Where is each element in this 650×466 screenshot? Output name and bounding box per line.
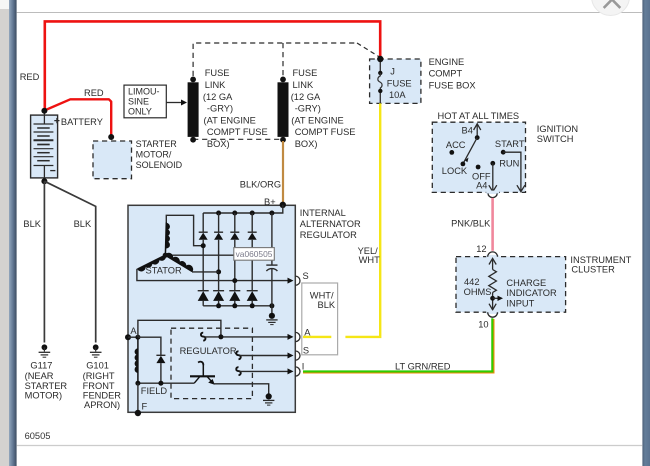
fuse link 2 (12 GA-GRY) bbox=[278, 77, 289, 143]
svg-text:G101: G101 bbox=[86, 361, 109, 371]
field winding bbox=[137, 337, 139, 383]
starter motor solenoid box bbox=[93, 141, 132, 179]
label YEL/WHT bbox=[358, 246, 380, 265]
svg-text:442: 442 bbox=[464, 277, 480, 287]
wire YEL fuse J down to alternator A terminal bbox=[345, 103, 380, 337]
svg-text:ACC: ACC bbox=[446, 140, 466, 150]
diode rectifier column 4 bbox=[247, 213, 258, 306]
svg-text:-GRY): -GRY) bbox=[207, 104, 233, 114]
label INTERNAL ALTERNATOR REGULATOR bbox=[300, 208, 361, 240]
svg-text:-GRY): -GRY) bbox=[295, 104, 321, 114]
terminal A bbox=[295, 332, 300, 341]
node phase3 tap on column 3 bbox=[232, 278, 237, 283]
svg-text:MOTOR/: MOTOR/ bbox=[136, 150, 172, 160]
svg-text:B4: B4 bbox=[462, 125, 473, 135]
svg-text:BLK/ORG: BLK/ORG bbox=[240, 180, 281, 190]
svg-text:REGULATOR: REGULATOR bbox=[180, 346, 237, 356]
fuse J engine compt fuse box bbox=[370, 56, 421, 104]
node A terminal on alternator edge bbox=[125, 334, 131, 340]
svg-text:BATTERY: BATTERY bbox=[61, 117, 103, 127]
flyback diode across field bbox=[138, 337, 166, 383]
svg-text:(12 GA: (12 GA bbox=[203, 92, 233, 102]
svg-text:FUSE: FUSE bbox=[387, 78, 412, 88]
node START with down arrow bbox=[501, 150, 506, 155]
svg-text:A: A bbox=[130, 326, 137, 336]
svg-text:(12 GA: (12 GA bbox=[291, 92, 321, 102]
svg-text:LINK: LINK bbox=[293, 80, 314, 90]
terminal I bbox=[295, 367, 300, 376]
svg-text:60505: 60505 bbox=[25, 431, 51, 441]
wire regulator A output bbox=[204, 336, 290, 338]
svg-text:A4: A4 bbox=[476, 181, 487, 191]
svg-text:S: S bbox=[303, 271, 309, 281]
svg-text:INTERNAL: INTERNAL bbox=[300, 208, 346, 218]
svg-text:A: A bbox=[304, 327, 311, 337]
label ENGINE COMPT FUSE BOX bbox=[429, 57, 476, 90]
wire stator phase1 staircase to diode column 1 bbox=[166, 215, 203, 245]
svg-text:COMPT FUSE: COMPT FUSE bbox=[295, 127, 356, 137]
svg-text:START: START bbox=[495, 139, 525, 149]
node RUN with down arrow bbox=[490, 161, 495, 166]
wire RED battery to engine compt fuse box bbox=[45, 21, 380, 112]
ignition switch wiper B4 to LOCK bbox=[463, 138, 477, 164]
wire BLK battery to G117 bbox=[43, 181, 45, 342]
wire B+ bus bbox=[203, 205, 283, 213]
svg-text:ALTERNATOR: ALTERNATOR bbox=[300, 219, 361, 229]
svg-text:10A: 10A bbox=[389, 90, 406, 100]
svg-text:LT GRN/RED: LT GRN/RED bbox=[395, 362, 451, 372]
node phase2 tap bbox=[216, 269, 221, 274]
svg-text:INDICATOR: INDICATOR bbox=[506, 288, 557, 298]
node bottom bus dots bbox=[216, 303, 221, 308]
watermark va060505 bbox=[234, 248, 274, 261]
svg-text:SINE: SINE bbox=[128, 97, 149, 107]
svg-text:PNK/BLK: PNK/BLK bbox=[451, 218, 491, 228]
svg-text:STATOR: STATOR bbox=[146, 266, 182, 276]
wire regulator S output bbox=[240, 355, 290, 357]
svg-text:BLK: BLK bbox=[318, 300, 336, 310]
svg-text:F: F bbox=[142, 401, 148, 411]
wire A over-the-top route to regulator contact bbox=[138, 320, 221, 337]
connector arc ignition switch output A4 bbox=[486, 191, 499, 194]
wire bottom bus bbox=[203, 305, 272, 307]
wire A node junction bbox=[128, 336, 138, 338]
node LOCK bbox=[461, 162, 466, 167]
svg-text:APRON): APRON) bbox=[84, 400, 120, 410]
resistor 442 OHMS bbox=[489, 258, 497, 309]
node ACC bbox=[449, 150, 454, 155]
wire regulator I output bbox=[240, 370, 290, 372]
label CHARGE INDICATOR INPUT bbox=[506, 278, 557, 309]
contact hook I bbox=[236, 367, 241, 375]
svg-text:10: 10 bbox=[478, 319, 488, 329]
label G117 (NEAR STARTER MOTOR) bbox=[25, 361, 68, 401]
svg-text:(AT ENGINE: (AT ENGINE bbox=[291, 115, 343, 125]
svg-text:FUSE: FUSE bbox=[205, 68, 230, 78]
svg-text:(RIGHT: (RIGHT bbox=[83, 371, 115, 381]
alternator box internal alternator regulator bbox=[128, 205, 295, 412]
svg-text:G117: G117 bbox=[30, 361, 52, 371]
wire YEL short segment over connector box bbox=[303, 336, 331, 338]
svg-text:SWITCH: SWITCH bbox=[537, 134, 574, 144]
svg-text:OHMS: OHMS bbox=[464, 287, 492, 297]
svg-text:CHARGE: CHARGE bbox=[506, 278, 546, 288]
svg-text:COMPT: COMPT bbox=[429, 69, 463, 79]
node B+ terminal bbox=[280, 202, 286, 208]
svg-text:REGULATOR: REGULATOR bbox=[300, 230, 357, 240]
ignition switch terminal B4 with up arrow bbox=[474, 124, 481, 138]
node OFF bbox=[476, 165, 481, 170]
svg-text:ONLY: ONLY bbox=[128, 107, 152, 117]
svg-text:INSTRUMENT: INSTRUMENT bbox=[570, 255, 631, 265]
label fuse link 2 bbox=[291, 68, 356, 149]
battery BATTERY bbox=[31, 111, 60, 181]
ground regulator bbox=[263, 393, 274, 405]
node battery negative junction bbox=[41, 178, 47, 184]
regulator dashed box bbox=[171, 328, 252, 398]
diode rectifier column 2 bbox=[213, 213, 224, 306]
instrument cluster box bbox=[456, 257, 566, 313]
terminal S stator output bbox=[295, 276, 300, 285]
diode rectifier column 3 bbox=[229, 213, 240, 306]
svg-text:WHT: WHT bbox=[359, 255, 380, 265]
svg-text:FIELD: FIELD bbox=[141, 386, 168, 396]
capacitor column bbox=[266, 213, 277, 306]
node stator center bbox=[163, 253, 168, 258]
node charge indicator tap bbox=[490, 296, 495, 301]
wire phase3 to S terminal line bbox=[137, 269, 289, 281]
transistor Q1 bbox=[190, 362, 215, 385]
svg-text:LIMOU-: LIMOU- bbox=[128, 86, 160, 96]
label INSTRUMENT CLUSTER bbox=[570, 255, 631, 275]
stator wye vertical winding bbox=[164, 222, 167, 254]
svg-text:B+: B+ bbox=[264, 197, 276, 207]
svg-text:CLUSTER: CLUSTER bbox=[571, 264, 615, 274]
svg-text:FRONT: FRONT bbox=[83, 381, 115, 391]
fuse link 1 (12 GA-GRY) bbox=[188, 77, 199, 143]
svg-text:ENGINE: ENGINE bbox=[429, 57, 465, 67]
ignition switch box bbox=[432, 122, 525, 192]
wire BLK battery to G101 bbox=[44, 181, 95, 342]
connector arc cluster pin 10 bbox=[486, 311, 499, 314]
label G101 (RIGHT FRONT FENDER APRON) bbox=[83, 361, 122, 411]
wire field bottom line bbox=[138, 382, 194, 384]
svg-text:STARTER: STARTER bbox=[136, 139, 178, 149]
svg-text:COMPT FUSE: COMPT FUSE bbox=[207, 127, 268, 137]
ground G101 bbox=[90, 344, 102, 357]
stator wye down-left winding bbox=[138, 255, 165, 269]
wire emitter to regulator ground bbox=[214, 384, 269, 395]
svg-text:FENDER: FENDER bbox=[83, 391, 122, 401]
svg-text:LINK: LINK bbox=[205, 80, 226, 90]
label IGNITION SWITCH bbox=[537, 124, 578, 144]
svg-text:BLK: BLK bbox=[74, 219, 92, 229]
label 442 OHMS bbox=[464, 277, 492, 297]
wire RED battery to starter solenoid bbox=[44, 99, 111, 136]
connector arc cluster pin 12 bbox=[486, 255, 499, 258]
wire BLK/ORG fuse link 2 to alternator B+ bbox=[282, 141, 284, 203]
arrow limousine note to fuse link bbox=[166, 102, 182, 104]
svg-text:STARTER: STARTER bbox=[25, 381, 68, 391]
node bus dots bbox=[216, 211, 221, 216]
svg-text:RED: RED bbox=[84, 88, 104, 98]
terminal S regulator bbox=[295, 351, 300, 360]
svg-text:(AT ENGINE: (AT ENGINE bbox=[204, 115, 256, 125]
wire LT GRN/RED cluster to alternator I terminal bbox=[303, 319, 494, 373]
svg-text:LOCK: LOCK bbox=[442, 166, 468, 176]
ground rectifier bbox=[266, 306, 277, 325]
svg-text:BOX): BOX) bbox=[295, 139, 318, 149]
limousine only note box bbox=[124, 85, 166, 118]
svg-text:J: J bbox=[390, 67, 395, 77]
node battery positive junction bbox=[41, 108, 47, 114]
wire PNK/BLK ignition to cluster bbox=[491, 198, 494, 251]
connector box WHT/BLK bbox=[302, 283, 338, 355]
fuse box dashed outline bbox=[193, 43, 379, 139]
svg-text:IGNITION: IGNITION bbox=[537, 124, 578, 134]
diode rectifier column 1 bbox=[198, 213, 209, 306]
label STARTER MOTOR/ SOLENOID bbox=[136, 139, 183, 170]
svg-text:BOX): BOX) bbox=[207, 139, 230, 149]
svg-text:RUN: RUN bbox=[499, 158, 519, 168]
label fuse link 1 bbox=[203, 68, 268, 149]
svg-text:RED: RED bbox=[20, 72, 40, 82]
node starter solenoid junction bbox=[108, 134, 114, 140]
svg-text:BLK: BLK bbox=[23, 219, 41, 229]
svg-text:va060505: va060505 bbox=[236, 249, 273, 259]
svg-text:12: 12 bbox=[476, 244, 486, 254]
contact hook A bbox=[201, 333, 206, 341]
svg-text:I: I bbox=[302, 361, 305, 371]
node phase1 tap bbox=[201, 243, 206, 248]
wire phase2 to column 2 bbox=[192, 271, 219, 273]
svg-text:MOTOR): MOTOR) bbox=[25, 391, 63, 401]
label J FUSE 10A bbox=[387, 67, 412, 101]
contact hook S bbox=[236, 351, 241, 359]
ground G117 bbox=[39, 344, 51, 357]
svg-text:INPUT: INPUT bbox=[506, 298, 534, 308]
svg-text:HOT AT ALL TIMES: HOT AT ALL TIMES bbox=[438, 111, 520, 121]
stator wye down-right winding bbox=[165, 255, 192, 271]
svg-text:S: S bbox=[303, 346, 309, 356]
wire center tap to column 4 bbox=[165, 254, 252, 256]
svg-text:FUSE: FUSE bbox=[293, 68, 318, 78]
svg-text:FUSE BOX: FUSE BOX bbox=[429, 80, 476, 90]
wire F terminal bbox=[137, 383, 139, 413]
svg-text:SOLENOID: SOLENOID bbox=[136, 160, 183, 170]
svg-text:(NEAR: (NEAR bbox=[25, 371, 54, 381]
